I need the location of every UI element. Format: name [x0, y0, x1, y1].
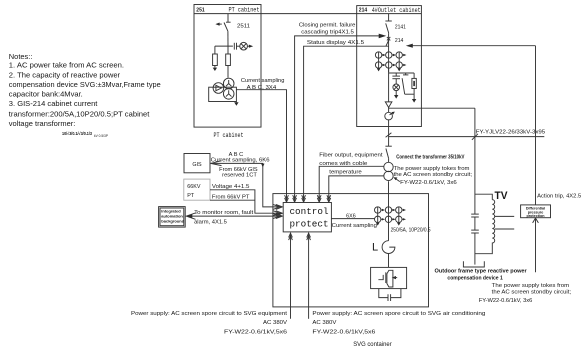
indicator lamp aux	[393, 84, 400, 95]
svg-text:Fiber output, equipment: Fiber output, equipment	[319, 152, 383, 158]
svg-text:Outdoor frame type reactive po: Outdoor frame type reactive power	[435, 268, 528, 274]
svg-text:214: 214	[359, 8, 368, 14]
svg-text:voltage transformer:: voltage transformer:	[9, 119, 76, 128]
svg-text:FY-W22-0.6/1kV, 3x6: FY-W22-0.6/1kV, 3x6	[479, 298, 533, 304]
svg-text:FY-YJLV22-26/33kV-3x95: FY-YJLV22-26/33kV-3x95	[476, 130, 546, 136]
svg-text:capacitor bank:4Mvar.: capacitor bank:4Mvar.	[9, 89, 83, 98]
svg-text:L: L	[372, 242, 378, 254]
current transformers container row 2	[375, 216, 407, 222]
bottom middle labels (air conditioning supply)	[312, 311, 485, 336]
label FY-W22-0.6/1kV, 3x6 with leader	[393, 177, 457, 186]
svg-text:3. GIS-214 cabinet current: 3. GIS-214 cabinet current	[9, 99, 98, 108]
svg-text:PT cabinet: PT cabinet	[229, 7, 260, 14]
svg-text:2. The capacity of reactive po: 2. The capacity of reactive power	[9, 70, 121, 79]
PT ratio formula	[62, 131, 109, 138]
wire	[227, 31, 229, 46]
svg-text:kV 0.5/3P: kV 0.5/3P	[94, 134, 109, 138]
CT secondary ground stubs	[377, 68, 401, 71]
wire closing permit / cascading trip	[293, 34, 387, 203]
svg-text:GIS: GIS	[192, 162, 202, 168]
capacitor TV 2	[471, 230, 479, 233]
ground	[234, 102, 238, 106]
fuse F1	[213, 46, 218, 68]
svg-text:Current sampling, 6K6: Current sampling, 6K6	[211, 158, 270, 164]
svg-text:temperature: temperature	[329, 170, 362, 176]
TV winding coil	[475, 200, 495, 254]
bottom left labels (SVG equipment supply)	[131, 311, 288, 336]
SVG container enclosure	[273, 194, 429, 307]
svg-text:AC 380V: AC 380V	[263, 320, 288, 326]
svg-text:From 66kV PT: From 66kV PT	[212, 195, 250, 201]
ground	[394, 95, 398, 99]
wire below differential protection with up arrow	[533, 218, 539, 272]
svg-text:2141: 2141	[395, 25, 406, 31]
wire action trip vertical	[535, 46, 537, 205]
svg-text:Action trip, 4X2.5: Action trip, 4X2.5	[537, 194, 581, 200]
wire to monitor room / fault alarm	[186, 213, 282, 219]
wire bus drop PT	[227, 14, 229, 23]
GIS box	[184, 154, 210, 173]
svg-text:66KV: 66KV	[187, 184, 201, 190]
transformer 35/10kV	[384, 162, 393, 180]
wire to TV branch	[389, 107, 475, 109]
wire branch	[215, 45, 233, 47]
capacitor TV 1	[471, 214, 479, 217]
fuse aux	[412, 78, 416, 99]
svg-text:TV: TV	[495, 190, 509, 202]
svg-text:Current sampling: Current sampling	[241, 78, 285, 84]
svg-text:Voltage 4+1.5: Voltage 4+1.5	[212, 184, 250, 190]
DC link capacitor	[379, 289, 401, 301]
svg-text:alarm, 4X1.5: alarm, 4X1.5	[194, 220, 227, 226]
reactor L	[382, 241, 395, 254]
voltage transformer 3-winding PT	[209, 78, 237, 101]
svg-text:251: 251	[196, 8, 205, 14]
svg-text:background: background	[161, 218, 184, 223]
disconnector at transformer	[385, 146, 391, 162]
svg-text:Closing permit. failure: Closing permit. failure	[299, 23, 356, 29]
differential pressure protection device	[521, 205, 551, 218]
svg-text:2511: 2511	[237, 24, 250, 30]
busbar wire between cabinets	[261, 13, 357, 15]
power wire SVG equipment	[289, 233, 293, 319]
integrated automation background box	[159, 207, 186, 228]
capacitor (lamp coupling)	[234, 43, 240, 50]
svg-text:6X6: 6X6	[346, 214, 356, 220]
circuit breaker 214	[386, 33, 390, 72]
wire temperature	[327, 176, 384, 202]
disconnector 2141	[385, 21, 391, 33]
disconnector 2511	[215, 22, 230, 31]
wire PT current sampling to control	[236, 90, 288, 203]
wire transformer to container	[388, 181, 390, 222]
svg-text:Power supply: AC screen spore: Power supply: AC screen spore circuit to…	[131, 311, 288, 317]
svg-text:compensation device 1: compensation device 1	[447, 276, 502, 282]
svg-text:protection: protection	[526, 214, 545, 218]
CT secondary ground stubs container	[376, 223, 401, 226]
svg-text:250/5A, 10P20/0.5: 250/5A, 10P20/0.5	[391, 227, 431, 233]
svg-text:cascading trip4X1.5: cascading trip4X1.5	[301, 30, 354, 36]
svg-text:PT cabinet: PT cabinet	[214, 132, 244, 139]
wire action trip to breaker	[406, 44, 536, 48]
svg-text:control: control	[289, 206, 328, 217]
wire TV top branch	[475, 194, 492, 199]
ground	[412, 99, 416, 103]
current transformers outlet row 2	[375, 62, 406, 68]
4#Outlet cabinet enclosure 214	[357, 6, 422, 127]
current transformers outlet row 1	[375, 52, 406, 68]
switch aux	[402, 73, 414, 94]
surge arrester	[385, 102, 392, 112]
svg-text:FY-W22-0.6/1kV, 3x6: FY-W22-0.6/1kV, 3x6	[400, 180, 457, 186]
cable slash mark TV	[472, 134, 478, 140]
wire FY-YJLV22 cable	[389, 136, 545, 138]
wire reactor to converter	[388, 254, 390, 268]
frame bracket	[463, 261, 484, 267]
wire status display	[302, 46, 389, 202]
svg-text:PT: PT	[187, 193, 195, 199]
svg-text:Current sampling: Current sampling	[332, 223, 377, 229]
svg-text:214: 214	[395, 38, 404, 44]
svg-text:the AC screen stondby circuit;: the AC screen stondby circuit;	[492, 289, 571, 295]
svg-text:reserved 1CT: reserved 1CT	[222, 172, 258, 178]
power wire SVG air conditioning	[307, 233, 311, 319]
66kV PT box (grey)	[184, 179, 210, 200]
wire main to reactor	[388, 223, 390, 241]
svg-text:4#Outlet cabinet: 4#Outlet cabinet	[372, 7, 421, 14]
current transformers container row 1	[375, 207, 407, 223]
IGBT converter unit	[371, 267, 407, 288]
svg-text:Status display 4X1.5: Status display 4X1.5	[307, 40, 364, 46]
wire arrow out of lamp	[247, 45, 253, 48]
svg-text:To monitor room, fault: To monitor room, fault	[194, 210, 254, 216]
wire fiber output	[317, 166, 384, 202]
capacitor aux	[392, 73, 400, 84]
ground	[213, 68, 217, 71]
wire cable down	[388, 120, 390, 146]
svg-text:the AC screen stondby circuit;: the AC screen stondby circuit;	[394, 172, 472, 178]
wire TV branch down	[474, 108, 476, 264]
svg-text:1. AC power take from AC scree: 1. AC power take from AC screen.	[9, 61, 124, 70]
cable slash mark	[386, 133, 392, 137]
notes text block	[9, 52, 161, 128]
svg-text:SVG container: SVG container	[353, 341, 392, 348]
fuse F2	[226, 46, 231, 78]
svg-text:Power supply: AC screen spore: Power supply: AC screen spore circuit to…	[312, 311, 485, 317]
svg-text:transformer:200/5A,10P20/0.5;P: transformer:200/5A,10P20/0.5;PT cabinet	[9, 109, 150, 118]
svg-text:10/√3/0.1/√3/0.1/3: 10/√3/0.1/√3/0.1/3	[62, 131, 92, 136]
TV secondary taps	[495, 216, 514, 229]
zero-sequence CT	[385, 112, 395, 120]
PT cabinet enclosure 251	[194, 5, 261, 128]
wire bus drop outlet	[388, 14, 390, 21]
control/protect unit	[283, 203, 331, 232]
svg-text:comes with coble: comes with coble	[319, 161, 367, 167]
wire 6X6 current sampling	[331, 218, 374, 220]
svg-text:compensation device SVG:±3Mvar: compensation device SVG:±3Mvar,Frame typ…	[9, 80, 161, 89]
svg-text:FY-W22-0.6/1kV,5x6: FY-W22-0.6/1kV,5x6	[312, 330, 375, 336]
svg-text:The power supply tokes from: The power supply tokes from	[492, 283, 570, 289]
svg-text:protect: protect	[289, 219, 328, 230]
wire aux branch	[389, 73, 415, 78]
wire GIS current sampling	[211, 161, 283, 210]
svg-text:FY-W22-0.6/1kV,5x6: FY-W22-0.6/1kV,5x6	[224, 330, 287, 336]
svg-text:AC 380V: AC 380V	[312, 320, 337, 326]
wire 66kV PT voltage	[210, 190, 282, 216]
indicator lamp	[240, 42, 248, 50]
wire main outlet	[388, 68, 390, 102]
svg-text:Connect the transformer 35/10k: Connect the transformer 35/10kV	[396, 155, 465, 161]
